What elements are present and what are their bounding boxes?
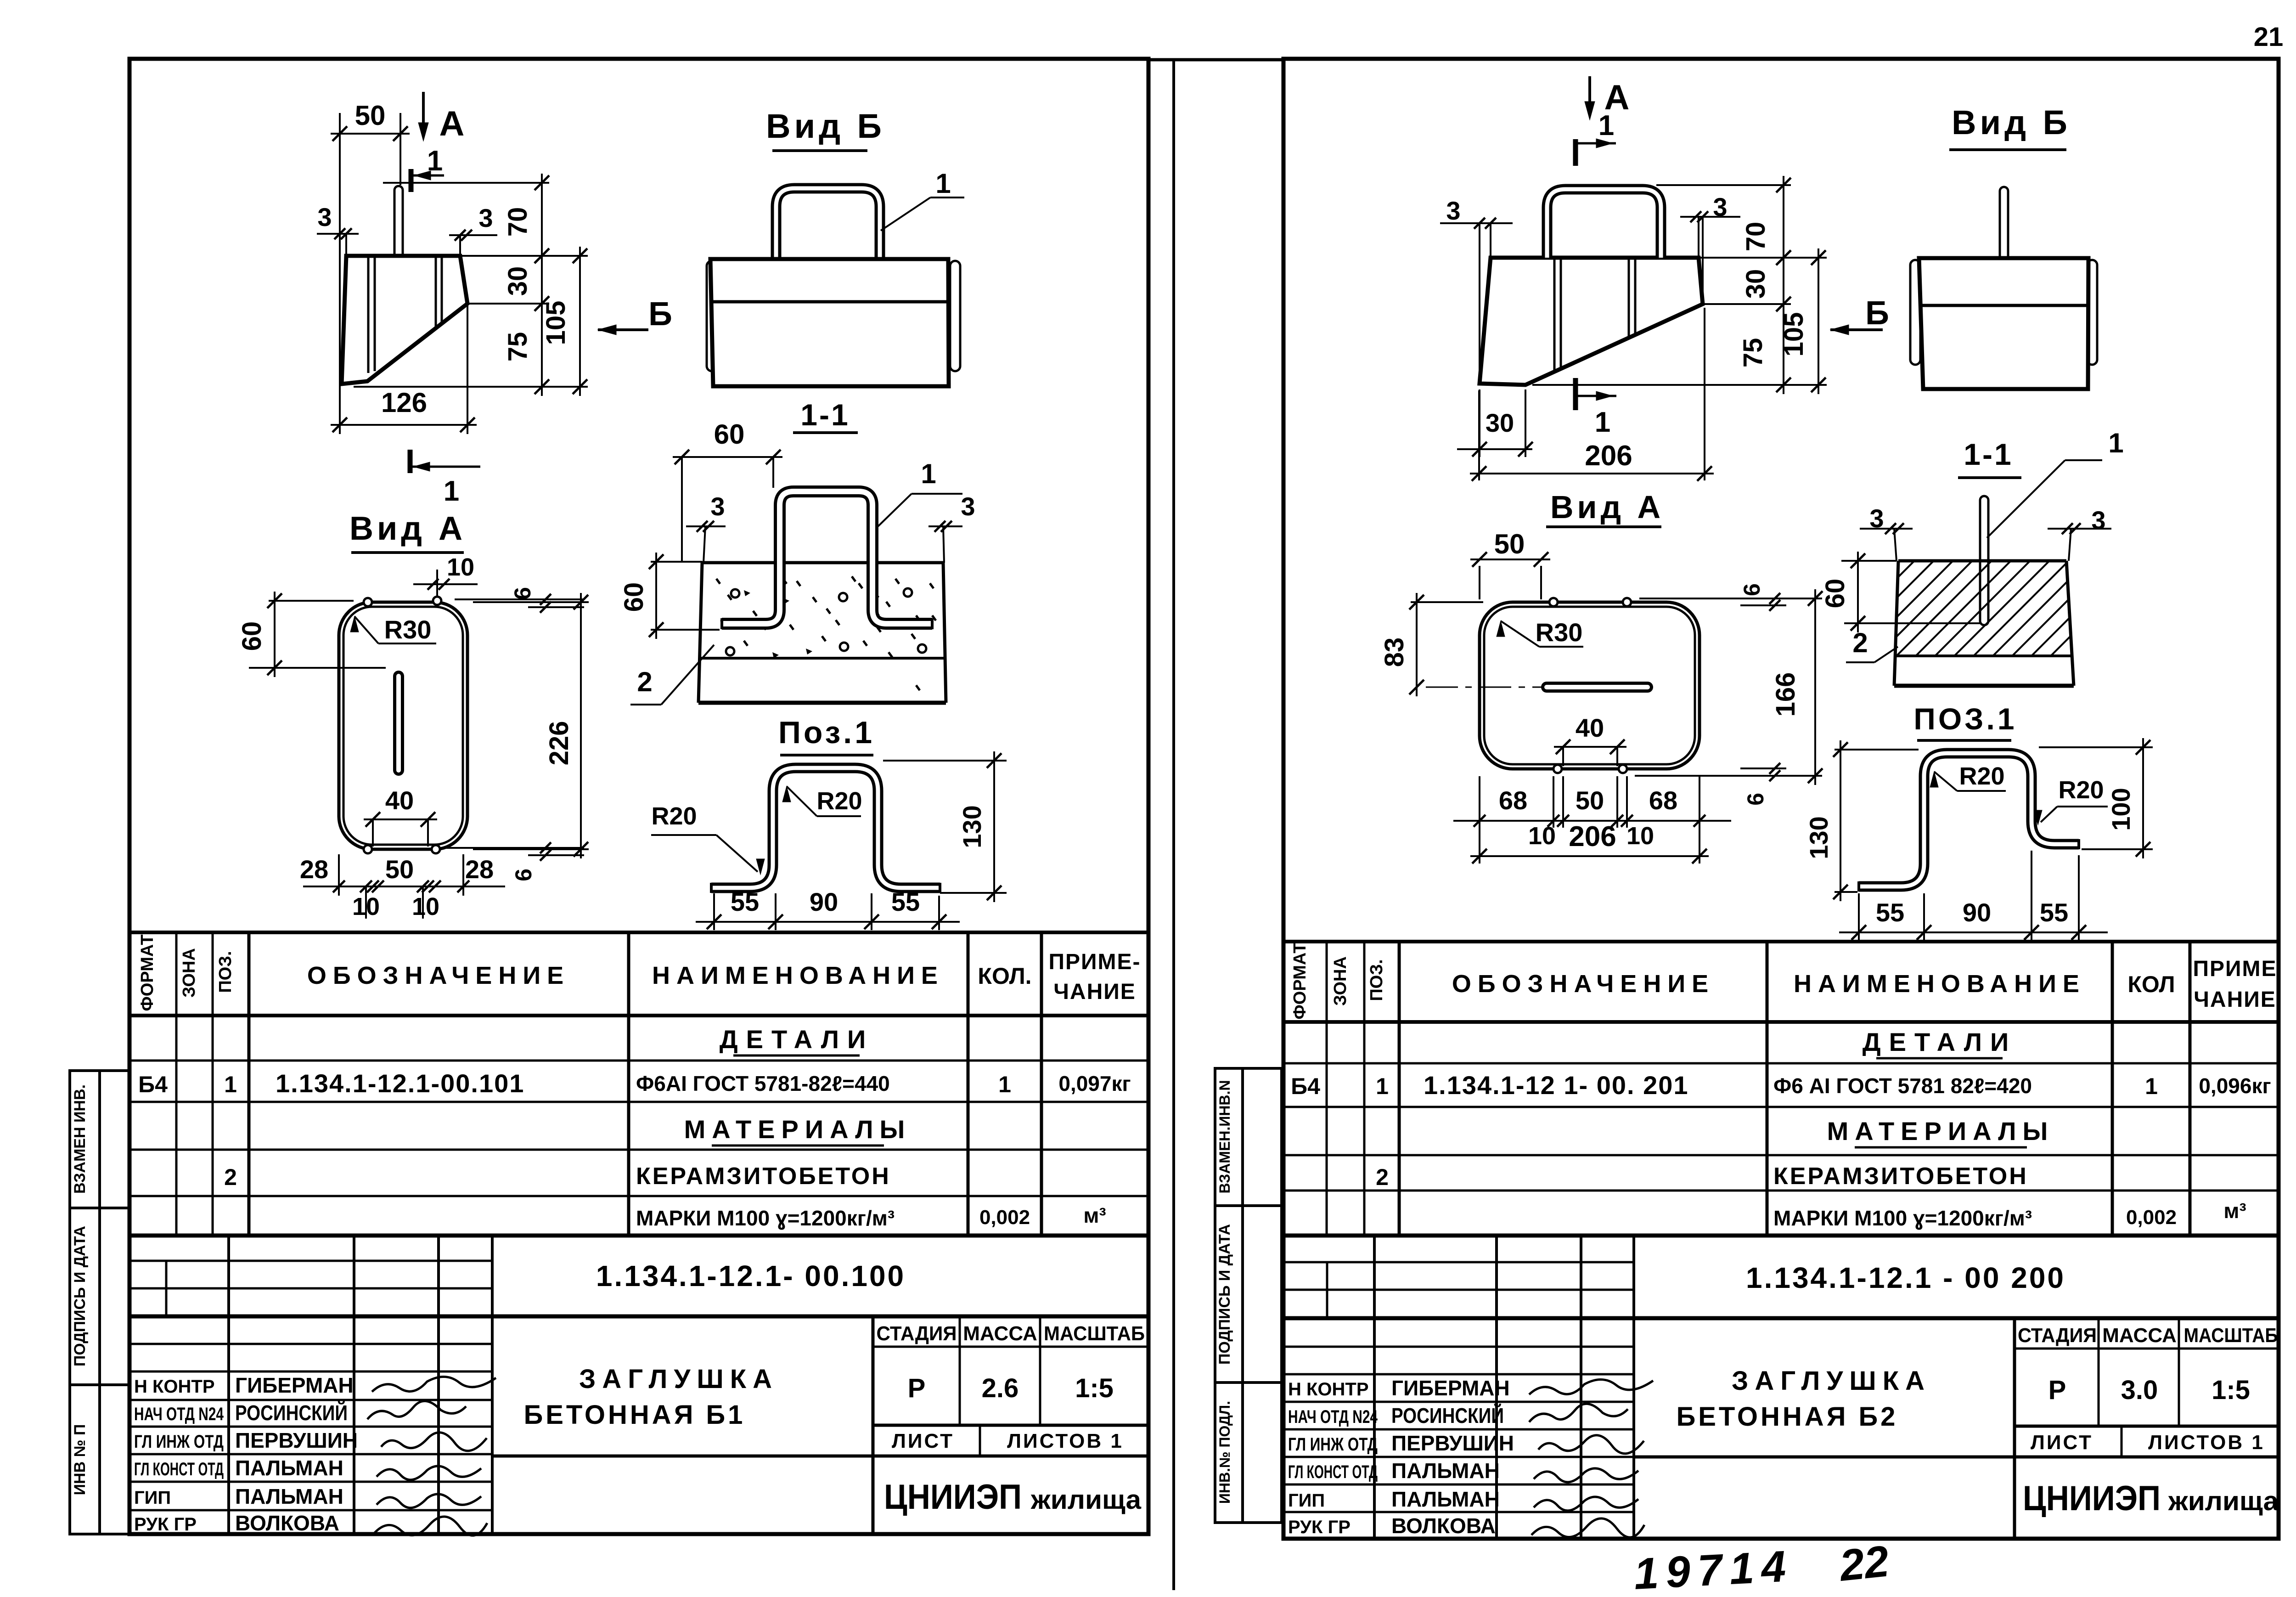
- svg-text:РОСИНСКИЙ: РОСИНСКИЙ: [1391, 1404, 1504, 1428]
- svg-text:СТАДИЯ: СТАДИЯ: [877, 1322, 957, 1345]
- svg-text:1: 1: [935, 168, 951, 199]
- right view A: dimension 40: [1562, 747, 1564, 766]
- svg-text:105: 105: [541, 301, 571, 345]
- right 1-1: leader 1 to rod: [1987, 460, 2065, 538]
- svg-text:Н КОНТР: Н КОНТР: [1288, 1379, 1369, 1399]
- left view A: bottom chain dimensions 28 50 28: [338, 854, 340, 896]
- svg-text:1: 1: [921, 458, 936, 489]
- right sheet side strip box ВЗАМЕН ИНВ N: [1215, 1068, 1243, 1206]
- svg-text:ВОЛКОВА: ВОЛКОВА: [235, 1511, 339, 1535]
- svg-text:ПОДПИСЬ И ДАТА: ПОДПИСЬ И ДАТА: [1216, 1224, 1233, 1365]
- svg-text:28: 28: [465, 855, 494, 884]
- svg-text:126: 126: [381, 387, 427, 418]
- svg-text:1-1: 1-1: [1964, 437, 2013, 471]
- svg-text:1:5: 1:5: [1075, 1373, 1114, 1403]
- svg-text:ЧАНИЕ: ЧАНИЕ: [2194, 988, 2276, 1012]
- svg-text:3: 3: [1446, 196, 1460, 225]
- svg-text:ПЕРВУШИН: ПЕРВУШИН: [1391, 1431, 1514, 1455]
- svg-text:ПЕРВУШИН: ПЕРВУШИН: [235, 1428, 358, 1452]
- svg-text:КЕРАМЗИТОБЕТОН: КЕРАМЗИТОБЕТОН: [1773, 1163, 2028, 1190]
- left 1-1: concrete block outline: [702, 561, 943, 564]
- left view A: dimension 40: [372, 819, 374, 846]
- right sheet side strip box ПОДПИСЬ И ДАТА: [1215, 1206, 1243, 1383]
- svg-text:1: 1: [2108, 428, 2123, 458]
- svg-text:ВОЛКОВА: ВОЛКОВА: [1391, 1514, 1496, 1538]
- right 1-1: concrete block outline: [1898, 559, 2066, 563]
- svg-text:ИНВ № П: ИНВ № П: [71, 1424, 89, 1495]
- svg-text:МАТЕРИАЛЫ: МАТЕРИАЛЫ: [684, 1115, 912, 1144]
- svg-text:30: 30: [1741, 269, 1771, 299]
- svg-text:ЛИСТ: ЛИСТ: [892, 1430, 954, 1452]
- svg-text:226: 226: [544, 721, 574, 766]
- svg-text:6: 6: [1739, 583, 1765, 596]
- svg-text:ПАЛЬМАН: ПАЛЬМАН: [1391, 1487, 1500, 1511]
- svg-text:75: 75: [1738, 338, 1768, 368]
- right 1-1: block bottom edge: [1894, 684, 2074, 688]
- svg-text:м³: м³: [1083, 1203, 1106, 1227]
- svg-text:2.6: 2.6: [982, 1373, 1019, 1403]
- right view Б: left side ear: [1910, 260, 1920, 365]
- svg-text:70: 70: [503, 207, 533, 237]
- right main view: dimension 70: [1656, 184, 1791, 186]
- svg-text:КОЛ.: КОЛ.: [978, 963, 1031, 989]
- svg-text:3: 3: [2091, 506, 2105, 535]
- left view A: dimension 10: [436, 570, 438, 597]
- svg-text:60: 60: [619, 582, 649, 612]
- svg-text:Н КОНТР: Н КОНТР: [134, 1377, 215, 1397]
- svg-text:ФОРМАТ: ФОРМАТ: [138, 934, 157, 1011]
- svg-text:ПРИМЕ: ПРИМЕ: [2193, 957, 2277, 981]
- svg-text:68: 68: [1499, 786, 1527, 815]
- svg-text:21: 21: [2254, 22, 2284, 52]
- svg-text:МАСШТАБ: МАСШТАБ: [2184, 1324, 2278, 1347]
- svg-text:30: 30: [503, 266, 533, 296]
- left main view: dimension 3 left: [317, 233, 359, 235]
- left pos.1: label R20 top: [782, 786, 791, 802]
- svg-text:МАРКИ М100 ɣ=1200кг/м³: МАРКИ М100 ɣ=1200кг/м³: [1773, 1206, 2032, 1230]
- svg-text:ЗАГЛУШКА: ЗАГЛУШКА: [1732, 1366, 1931, 1396]
- svg-text:83: 83: [1379, 638, 1409, 667]
- left pos.1: dimension 130: [883, 760, 1007, 762]
- svg-text:ЛИСТ: ЛИСТ: [2031, 1431, 2093, 1454]
- svg-text:БЕТОННАЯ Б1: БЕТОННАЯ Б1: [524, 1400, 746, 1430]
- right view A: bottom chain dimensions 68 50 68: [1479, 776, 1480, 863]
- svg-text:ГЛ КОНСТ ОТД: ГЛ КОНСТ ОТД: [134, 1459, 224, 1479]
- right main view: plug body outline: [1480, 258, 1703, 385]
- svg-text:ЦНИИЭП: ЦНИИЭП: [884, 1478, 1022, 1517]
- right main view: dimension 206: [1478, 390, 1480, 480]
- left main view: dimension 3 right: [449, 234, 497, 236]
- svg-text:РУК ГР: РУК ГР: [134, 1514, 197, 1535]
- svg-text:10: 10: [447, 553, 474, 581]
- svg-text:206: 206: [1585, 440, 1632, 472]
- svg-text:50: 50: [1494, 529, 1525, 559]
- right view A: dimension 6 top: [1639, 598, 1822, 599]
- svg-text:ПОЗ.: ПОЗ.: [216, 951, 235, 993]
- svg-text:ФОРМАТ: ФОРМАТ: [1290, 942, 1310, 1019]
- right view A: dimension 50: [1479, 566, 1480, 599]
- svg-text:КЕРАМЗИТОБЕТОН: КЕРАМЗИТОБЕТОН: [636, 1163, 891, 1190]
- svg-text:Б: Б: [648, 296, 672, 333]
- svg-text:РОСИНСКИЙ: РОСИНСКИЙ: [235, 1401, 348, 1425]
- svg-text:206: 206: [1569, 821, 1616, 852]
- right pos.1: label R20 top: [1930, 772, 1938, 787]
- svg-text:1: 1: [1598, 110, 1614, 141]
- svg-text:1: 1: [444, 475, 459, 507]
- svg-text:19714: 19714: [1632, 1541, 1794, 1597]
- svg-text:60: 60: [714, 419, 745, 450]
- left 1-1: block bottom edge: [698, 701, 946, 705]
- svg-text:0,002: 0,002: [2126, 1206, 2177, 1229]
- svg-text:3: 3: [478, 203, 493, 232]
- left 1-1: leader 1 to loop: [878, 494, 912, 526]
- right 1-1: bottom band line: [1896, 655, 2072, 657]
- svg-text:1: 1: [427, 145, 443, 177]
- right main view: dimension 30 bottom left: [1479, 389, 1480, 457]
- svg-text:МАТЕРИАЛЫ: МАТЕРИАЛЫ: [1827, 1117, 2054, 1146]
- svg-text:130: 130: [957, 805, 986, 848]
- right pos.1: dimension 130: [1835, 749, 1919, 751]
- right view Б: loop wire end (rod): [2000, 187, 2008, 258]
- svg-text:R20: R20: [816, 787, 862, 815]
- left sheet side strip box ПОДПИСЬ И ДАТА: [70, 1208, 100, 1385]
- svg-text:3: 3: [710, 492, 725, 521]
- svg-text:ПОДПИСЬ И ДАТА: ПОДПИСЬ И ДАТА: [71, 1226, 89, 1366]
- svg-text:R20: R20: [2058, 776, 2104, 804]
- right pos.1: bent bar: [1859, 753, 2079, 886]
- svg-text:10: 10: [412, 893, 439, 920]
- svg-text:1: 1: [998, 1072, 1011, 1097]
- svg-text:Вид Б: Вид Б: [1952, 103, 2071, 141]
- left sheet side strip box ИНВ №: [70, 1385, 100, 1534]
- svg-text:R30: R30: [384, 615, 432, 644]
- left title block grid: [129, 1315, 1148, 1319]
- right main view: view arrow A: [1588, 76, 1591, 115]
- svg-text:Ф6 АI ГОСТ 5781 82ℓ=420: Ф6 АI ГОСТ 5781 82ℓ=420: [1773, 1074, 2032, 1098]
- svg-text:100: 100: [2106, 788, 2135, 830]
- right view Б: view arrow Б: [1830, 328, 1883, 331]
- right 1-1: leader 2 to concrete: [1846, 661, 1874, 663]
- svg-text:ЦНИИЭП: ЦНИИЭП: [2023, 1479, 2161, 1518]
- svg-text:1.134.1-12.1- 00.100: 1.134.1-12.1- 00.100: [596, 1259, 906, 1292]
- svg-text:НАЧ ОТД N24: НАЧ ОТД N24: [134, 1404, 224, 1424]
- right view Б: face split line: [1921, 304, 2087, 307]
- left pos.1: bottom dimensions 55 90 55: [713, 893, 715, 930]
- left main view: dimension 126: [467, 304, 468, 434]
- svg-text:60: 60: [1820, 579, 1850, 609]
- right view A: dimension 206: [1470, 855, 1709, 857]
- svg-text:50: 50: [355, 100, 386, 131]
- right main view: section mark 1 bottom: [1573, 378, 1578, 410]
- svg-text:СТАДИЯ: СТАДИЯ: [2018, 1324, 2097, 1347]
- svg-text:ВЗАМЕН.ИНВ.N: ВЗАМЕН.ИНВ.N: [1216, 1080, 1233, 1193]
- svg-text:Р: Р: [908, 1373, 926, 1403]
- svg-text:ГИБЕРМАН: ГИБЕРМАН: [1391, 1376, 1510, 1400]
- svg-text:1: 1: [1376, 1073, 1389, 1099]
- svg-text:75: 75: [503, 332, 533, 362]
- svg-text:166: 166: [1771, 672, 1801, 717]
- svg-text:Б4: Б4: [1291, 1073, 1320, 1099]
- svg-text:40: 40: [1576, 713, 1604, 742]
- left view Б: plug body front face: [710, 259, 949, 386]
- svg-text:60: 60: [237, 621, 267, 651]
- svg-text:1: 1: [1595, 406, 1610, 438]
- right title block grid: [1283, 1316, 2279, 1320]
- svg-text:130: 130: [1804, 816, 1833, 859]
- left view A: dimension 6 bottom: [445, 847, 584, 849]
- svg-text:ГЛ КОНСТ ОТД: ГЛ КОНСТ ОТД: [1288, 1462, 1378, 1482]
- left specification table grid: [129, 931, 1148, 934]
- svg-text:0,097кг: 0,097кг: [1058, 1072, 1131, 1095]
- svg-text:БЕТОННАЯ Б2: БЕТОННАЯ Б2: [1677, 1402, 1898, 1432]
- svg-text:ЧАНИЕ: ЧАНИЕ: [1053, 980, 1136, 1004]
- svg-text:1:5: 1:5: [2212, 1375, 2250, 1405]
- svg-text:10: 10: [1528, 822, 1556, 850]
- svg-text:22: 22: [1836, 1536, 1891, 1591]
- svg-text:1.134.1-12 1- 00. 201: 1.134.1-12 1- 00. 201: [1424, 1071, 1689, 1100]
- svg-text:3: 3: [317, 203, 332, 231]
- right view A: central slot: [1547, 682, 1648, 693]
- svg-text:1.134.1-12.1-00.101: 1.134.1-12.1-00.101: [276, 1069, 524, 1098]
- left main view: dimension 70: [383, 182, 549, 184]
- svg-text:ПАЛЬМАН: ПАЛЬМАН: [1391, 1459, 1500, 1483]
- svg-text:Вид Б: Вид Б: [766, 107, 885, 145]
- right view A: plug plan outline: [1480, 602, 1699, 769]
- svg-text:Р: Р: [2048, 1375, 2066, 1405]
- right 1-1: anchor rod: [1980, 496, 1988, 625]
- svg-text:ЗОНА: ЗОНА: [1331, 956, 1350, 1006]
- svg-text:0,002: 0,002: [979, 1206, 1030, 1229]
- svg-text:90: 90: [810, 887, 838, 916]
- right view A: label R30: [1497, 621, 1505, 637]
- svg-text:ОБОЗНАЧЕНИЕ: ОБОЗНАЧЕНИЕ: [1452, 970, 1715, 998]
- svg-text:м³: м³: [2223, 1199, 2246, 1223]
- svg-text:МАРКИ М100 ɣ=1200кг/м³: МАРКИ М100 ɣ=1200кг/м³: [636, 1206, 895, 1230]
- svg-text:ИНВ.№ ПОДЛ.: ИНВ.№ ПОДЛ.: [1216, 1401, 1233, 1504]
- left view A: plug plan outline: [339, 602, 467, 849]
- svg-text:10: 10: [1626, 822, 1654, 850]
- svg-text:МАСШТАБ: МАСШТАБ: [1044, 1322, 1145, 1345]
- right main view: dimension 75: [1783, 295, 1784, 394]
- right view Б: plug body front face: [1919, 258, 2088, 389]
- svg-text:ЛИСТОВ 1: ЛИСТОВ 1: [1007, 1430, 1124, 1452]
- left view Б: face split line: [712, 300, 947, 304]
- left main view: section mark 1 bottom: [408, 450, 413, 473]
- svg-text:55: 55: [731, 887, 759, 916]
- left view A: dimension 226: [473, 601, 589, 603]
- svg-text:3: 3: [961, 492, 975, 521]
- left view A: label R30: [350, 616, 359, 632]
- left 1-1: leader 2 to concrete: [630, 704, 661, 705]
- svg-text:ГИП: ГИП: [1288, 1490, 1325, 1511]
- right sheet side strip box ИНВ № ПОДЛ: [1215, 1383, 1243, 1523]
- left 1-1: concrete speckle texture: [731, 589, 739, 598]
- svg-text:6: 6: [1743, 793, 1768, 806]
- svg-text:2: 2: [637, 666, 652, 697]
- left view A: dimension 6 top: [455, 598, 584, 600]
- left view A: wire marks on edges: [364, 598, 372, 606]
- svg-text:50: 50: [385, 855, 414, 884]
- svg-text:1-1: 1-1: [800, 398, 850, 432]
- left main view: dimension 50: [339, 113, 341, 434]
- left view Б: leader 1 to loop: [881, 198, 930, 231]
- svg-text:Поз.1: Поз.1: [778, 715, 875, 750]
- svg-text:РУК ГР: РУК ГР: [1288, 1517, 1351, 1537]
- left main view: loop wire end (rod): [394, 186, 403, 256]
- right view A: dimension 166: [1814, 589, 1816, 785]
- left view A: central slot: [393, 676, 404, 770]
- svg-text:Б: Б: [1865, 295, 1889, 332]
- svg-text:105: 105: [1779, 312, 1809, 357]
- right signatures handwriting: [1529, 1379, 1653, 1394]
- svg-text:10: 10: [352, 893, 380, 920]
- svg-text:90: 90: [1963, 898, 1991, 927]
- right main view: dimension 30: [1703, 303, 1791, 305]
- right main view: dimension 105: [1699, 257, 1827, 259]
- right main view: lifting loop: [1547, 189, 1661, 258]
- right specification table grid: [1283, 940, 2279, 943]
- left sheet side strip box ВЗАМЕН ИНВ: [70, 1071, 100, 1208]
- top border joining segment: [1148, 58, 1283, 62]
- right pos.1: bottom dimensions 55 90 55: [1858, 893, 1860, 941]
- left main view: view arrow A: [422, 92, 425, 136]
- svg-text:Б4: Б4: [138, 1072, 168, 1097]
- svg-text:55: 55: [1876, 898, 1904, 927]
- svg-text:жилища: жилища: [1030, 1485, 1142, 1515]
- left main view: loop wire legs seen through body: [367, 258, 370, 373]
- svg-text:жилища: жилища: [2168, 1486, 2279, 1516]
- svg-text:1: 1: [224, 1072, 237, 1097]
- left 1-1: loop bar in section: [722, 491, 932, 624]
- svg-text:Вид А: Вид А: [349, 510, 466, 547]
- svg-text:ПАЛЬМАН: ПАЛЬМАН: [235, 1456, 343, 1480]
- right 1-1: dimension 60: [1841, 560, 1896, 562]
- right view A: slot centerline: [1426, 687, 1543, 688]
- svg-text:1: 1: [2145, 1073, 2158, 1099]
- svg-text:НАИМЕНОВАНИЕ: НАИМЕНОВАНИЕ: [1794, 970, 2086, 998]
- svg-text:ДЕТАЛИ: ДЕТАЛИ: [1863, 1027, 2017, 1056]
- left view Б: lifting loop: [776, 188, 880, 259]
- left main view: view arrow Б: [598, 328, 648, 331]
- svg-text:ПОЗ.: ПОЗ.: [1367, 959, 1386, 1001]
- svg-text:НАЧ ОТД N24: НАЧ ОТД N24: [1288, 1407, 1378, 1427]
- svg-text:70: 70: [1741, 222, 1771, 252]
- svg-text:ЗАГЛУШКА: ЗАГЛУШКА: [579, 1364, 778, 1394]
- svg-text:ЛИСТОВ 1: ЛИСТОВ 1: [2148, 1431, 2265, 1454]
- svg-text:A: A: [439, 104, 465, 143]
- svg-text:R20: R20: [1959, 762, 2004, 790]
- svg-text:28: 28: [300, 855, 328, 884]
- left view Б: left side ear: [707, 261, 717, 371]
- svg-text:ПОЗ.1: ПОЗ.1: [1913, 702, 2017, 736]
- svg-text:ОБОЗНАЧЕНИЕ: ОБОЗНАЧЕНИЕ: [307, 962, 570, 989]
- svg-text:1.134.1-12.1 - 00 200: 1.134.1-12.1 - 00 200: [1746, 1261, 2065, 1294]
- svg-text:МАССА: МАССА: [2102, 1324, 2177, 1347]
- svg-text:2: 2: [224, 1164, 237, 1190]
- svg-text:68: 68: [1649, 786, 1677, 815]
- svg-text:55: 55: [891, 887, 920, 916]
- svg-text:R30: R30: [1536, 618, 1583, 647]
- sheet separator line between pages: [1172, 59, 1175, 1590]
- right view A: dimension 6 bottom: [1635, 775, 1822, 777]
- right pos.1: dimension 100: [2039, 746, 2153, 748]
- svg-text:6: 6: [510, 587, 535, 600]
- svg-text:ПРИМЕ-: ПРИМЕ-: [1049, 950, 1141, 974]
- right main view: loop wire legs seen through body: [1553, 260, 1556, 371]
- svg-text:30: 30: [1486, 408, 1514, 437]
- svg-text:ГИП: ГИП: [134, 1488, 171, 1508]
- svg-text:ГЛ ИНЖ ОТД: ГЛ ИНЖ ОТД: [1288, 1434, 1378, 1455]
- left main view: dimension 105: [460, 255, 588, 257]
- svg-text:ГЛ ИНЖ ОТД: ГЛ ИНЖ ОТД: [134, 1432, 224, 1452]
- svg-text:ПАЛЬМАН: ПАЛЬМАН: [235, 1484, 343, 1508]
- svg-text:Ф6АI ГОСТ 5781-82ℓ=440: Ф6АI ГОСТ 5781-82ℓ=440: [636, 1072, 890, 1095]
- svg-text:0,096кг: 0,096кг: [2199, 1074, 2271, 1098]
- svg-text:50: 50: [1576, 786, 1604, 815]
- svg-text:2: 2: [1376, 1164, 1389, 1190]
- page frame right sheet: [1283, 59, 2279, 1539]
- svg-text:Вид А: Вид А: [1550, 489, 1664, 525]
- svg-text:НАИМЕНОВАНИЕ: НАИМЕНОВАНИЕ: [652, 962, 944, 989]
- left signatures handwriting: [372, 1377, 496, 1392]
- left view Б: right side ear: [950, 261, 960, 371]
- svg-text:55: 55: [2040, 898, 2068, 927]
- svg-text:ГИБЕРМАН: ГИБЕРМАН: [235, 1373, 354, 1397]
- svg-text:3.0: 3.0: [2121, 1375, 2158, 1405]
- left main view: dimension 30: [541, 247, 543, 313]
- svg-text:R20: R20: [651, 802, 697, 830]
- right view A: wire marks on edges: [1549, 598, 1558, 606]
- left main view: plug body outline: [342, 256, 467, 384]
- left 1-1: dimension 60 left: [651, 561, 702, 563]
- svg-text:КОЛ: КОЛ: [2127, 971, 2175, 997]
- left 1-1: dimension 60 top: [681, 457, 683, 563]
- svg-text:2: 2: [1852, 627, 1868, 658]
- left main view: dimension 75: [541, 294, 543, 396]
- page frame left sheet: [129, 59, 1148, 1534]
- left pos.1: bent bar: [711, 768, 940, 888]
- svg-text:МАССА: МАССА: [963, 1322, 1037, 1345]
- left main view: section mark 1 top: [409, 169, 414, 192]
- right view A: dimension 83: [1411, 601, 1483, 603]
- left 1-1: bottom band line: [699, 657, 945, 660]
- svg-text:ДЕТАЛИ: ДЕТАЛИ: [720, 1025, 874, 1054]
- right view Б: right side ear: [2087, 260, 2097, 365]
- svg-text:40: 40: [385, 786, 414, 815]
- svg-text:6: 6: [511, 869, 536, 881]
- svg-text:ВЗАМЕН ИНВ.: ВЗАМЕН ИНВ.: [71, 1084, 89, 1194]
- left view A: dimension 60: [269, 600, 354, 602]
- svg-text:ЗОНА: ЗОНА: [180, 948, 199, 998]
